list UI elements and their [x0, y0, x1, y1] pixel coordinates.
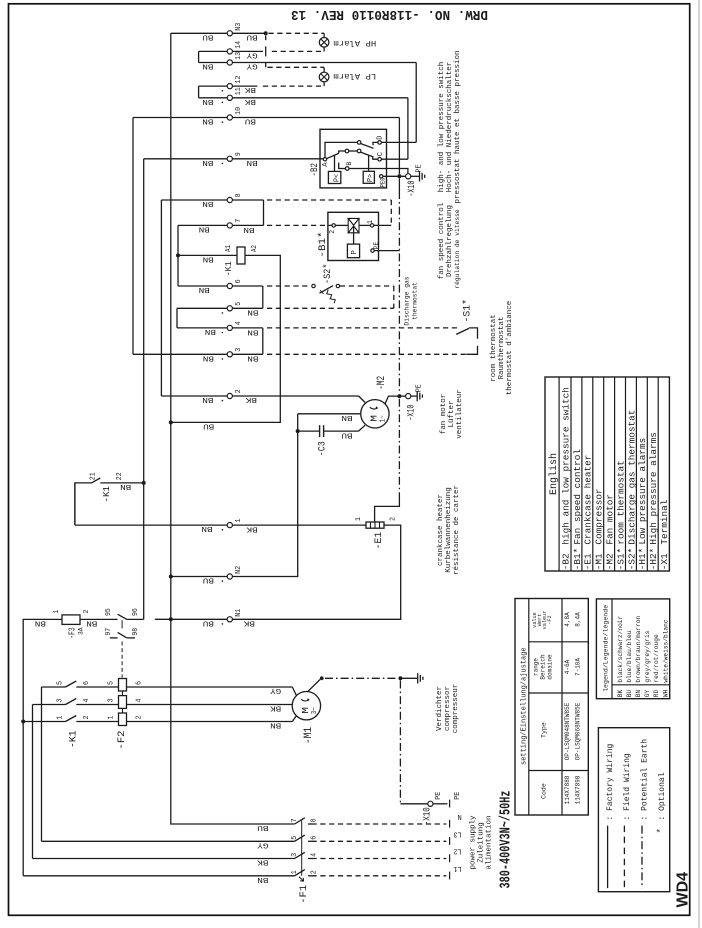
- svg-text:-M1: -M1: [594, 553, 605, 570]
- svg-text:4: 4: [235, 321, 243, 326]
- svg-text:BN: BN: [202, 158, 213, 166]
- svg-text:Verdichter: Verdichter: [436, 686, 444, 731]
- svg-text:PE: PE: [435, 792, 443, 800]
- svg-text:room thermostat: room thermostat: [490, 314, 498, 382]
- wire B2 C to corner: [381, 158, 408, 160]
- HP alarm return dashed to terminal 14: [323, 47, 325, 51]
- B1 triac symbol: [335, 224, 348, 226]
- node alarm junction on N3: [264, 31, 268, 35]
- svg-text:BK: BK: [257, 858, 269, 866]
- svg-text:Lüfter: Lüfter: [448, 400, 456, 427]
- svg-text:5: 5: [291, 836, 299, 840]
- node C3 junction: [296, 429, 300, 433]
- svg-text:BK: BK: [269, 704, 281, 712]
- svg-text:GY: GY: [246, 50, 258, 58]
- B2 terminal A: [323, 158, 326, 161]
- svg-text:3~: 3~: [311, 707, 319, 714]
- svg-text:P<: P<: [334, 174, 342, 182]
- svg-text:B: B: [346, 162, 353, 166]
- svg-text:BK: BK: [244, 85, 256, 93]
- wire BN to compressor: [292, 716, 296, 722]
- wire 13 right (GY) to B2 contact D: [232, 62, 416, 64]
- svg-text:: Potential Earth: : Potential Earth: [640, 739, 649, 821]
- connection bar at 14: [265, 46, 267, 56]
- svg-text:BU: BU: [257, 823, 268, 831]
- svg-text:97: 97: [105, 628, 113, 636]
- svg-text:A2: A2: [251, 245, 259, 252]
- svg-text:PE0: PE0: [380, 177, 387, 187]
- svg-text:4-6A: 4-6A: [564, 659, 571, 674]
- B2 B stationary hook: [339, 163, 346, 169]
- terminal X1:6: [227, 283, 232, 288]
- svg-text:résistance de carter: résistance de carter: [453, 485, 461, 575]
- wire 7 right (BN) dashed to B1 terminal 2: [232, 224, 263, 226]
- wire GY to compressor: [292, 687, 296, 696]
- terminal X1:N2: [227, 574, 232, 579]
- svg-text:12: 12: [235, 76, 243, 84]
- B2 C stationary contact: [373, 156, 378, 159]
- svg-text:Drehzahlregelung: Drehzahlregelung: [446, 205, 454, 277]
- svg-text:RD: RD: [653, 689, 660, 697]
- svg-text:1: 1: [107, 716, 115, 720]
- wire E1 to N1: [232, 525, 400, 619]
- potential earth to supply X10 (dash-dot): [399, 681, 401, 804]
- potential earth sample: [641, 826, 643, 889]
- svg-text:BN: BN: [205, 327, 216, 335]
- wire 9 left (BN) bus down to overload 96: [144, 158, 228, 160]
- svg-text:Fan speed control: Fan speed control: [572, 449, 583, 545]
- svg-text:2: 2: [136, 716, 144, 720]
- pressure switch B2 box: [320, 129, 387, 188]
- svg-text:-K1: -K1: [68, 731, 80, 749]
- wire N1 left (BU) stub through BU bus node: [155, 618, 227, 620]
- potential earth bus M2 to E1 (dash-dot): [398, 399, 400, 500]
- svg-text:7: 7: [291, 818, 299, 822]
- svg-text:21: 21: [89, 472, 97, 480]
- B2 A blade: [326, 153, 338, 158]
- node M1 PE dot: [320, 676, 324, 680]
- svg-text:2: 2: [329, 230, 337, 234]
- svg-text:Kurbelwannenheizung: Kurbelwannenheizung: [445, 487, 453, 573]
- svg-text:2: 2: [83, 610, 91, 614]
- svg-text:7: 7: [235, 219, 243, 223]
- svg-text:1: 1: [355, 517, 363, 521]
- wire B1 PE to potential earth bus: [374, 250, 399, 252]
- svg-text:Type: Type: [541, 722, 548, 738]
- svg-text:BN: BN: [202, 62, 213, 70]
- svg-text:-S1*: -S1*: [461, 299, 473, 323]
- node supply PE junction: [398, 676, 402, 680]
- svg-text:4: 4: [83, 699, 91, 703]
- wire 1 right (BK) to heater E1: [232, 524, 366, 526]
- svg-text:N: N: [458, 812, 462, 820]
- supply field wiring dashed lines: [312, 823, 447, 825]
- terminal X1:8: [227, 197, 232, 202]
- thermostat contact S1*: [456, 328, 469, 334]
- B2 terminal PE0: [380, 175, 383, 178]
- wire 12 right (BK): [232, 85, 257, 87]
- wire 5 right (BN) dashed: [232, 307, 262, 309]
- svg-text:BN: BN: [202, 199, 213, 207]
- B2 upper rail from A: [325, 142, 357, 157]
- node X10 PE junction at B2: [397, 174, 401, 178]
- wire L3 to F1: [42, 840, 295, 842]
- svg-text:BU: BU: [245, 117, 256, 125]
- svg-text:fan speed control: fan speed control: [438, 202, 446, 279]
- svg-text:GY: GY: [644, 689, 651, 697]
- wire 8 right (BN) jumper bracket to 7: [232, 199, 263, 201]
- node K1 aux on BN bus: [142, 481, 146, 485]
- svg-text:BU: BU: [202, 32, 213, 40]
- scan edge artifact line: [698, 0, 700, 928]
- svg-text:P>: P>: [367, 174, 375, 182]
- lamp H1 LP Alarm: [319, 72, 329, 82]
- jumper 12-11 left bracket: [199, 85, 228, 87]
- wire F3 to L1 bus: [23, 619, 45, 721]
- svg-text:DRW. NO. -118R0110 REV. 13: DRW. NO. -118R0110 REV. 13: [291, 6, 488, 22]
- svg-text:BN: BN: [247, 158, 258, 166]
- ground symbol at M2 X10: [416, 391, 418, 401]
- wire 11 right (BK) to B2 contact C: [232, 97, 408, 99]
- svg-text:BN: BN: [635, 689, 642, 697]
- capacitor C3: [298, 430, 320, 432]
- svg-text:English: English: [548, 453, 560, 495]
- wire 3 right (BN) dashed: [232, 353, 262, 355]
- svg-text:L2: L2: [453, 847, 461, 855]
- node BU bus / N1 junction: [169, 617, 173, 621]
- svg-text:1: 1: [367, 220, 375, 224]
- LP alarm return dashed to terminal 12: [323, 82, 325, 86]
- svg-text:8: 8: [235, 193, 243, 197]
- B1 P box: [347, 244, 359, 258]
- svg-text:BK: BK: [243, 619, 255, 627]
- lamp H2 HP Alarm: [319, 38, 329, 48]
- svg-text:M: M: [300, 707, 311, 714]
- wire B2 D to corner: [381, 141, 416, 143]
- B2 terminal B: [345, 167, 349, 171]
- svg-text:BN: BN: [270, 721, 281, 729]
- svg-text:-M1: -M1: [303, 727, 315, 744]
- contactor coil K1: [178, 254, 237, 256]
- field wire to HP alarm lamp (dashed): [269, 32, 325, 34]
- svg-text:14: 14: [235, 40, 243, 49]
- svg-text:room thermostat: room thermostat: [615, 460, 626, 544]
- B2 P> actuator link: [368, 156, 370, 172]
- wire 14 right (GY): [232, 50, 263, 52]
- wire N3 right (BU) to alarm junction: [232, 32, 265, 34]
- svg-text:PE: PE: [373, 242, 380, 250]
- svg-text:white/weiss/blanc: white/weiss/blanc: [662, 619, 669, 682]
- svg-text:-H2*: -H2*: [648, 548, 659, 571]
- BU neutral bus vertical: [170, 33, 172, 824]
- wire 6 right (BN) bracket to 5: [232, 285, 262, 287]
- svg-text:-B2: -B2: [560, 553, 571, 570]
- crankcase heater E1: [366, 522, 384, 528]
- svg-text:Bereich: Bereich: [540, 654, 547, 680]
- svg-text:11: 11: [235, 87, 243, 96]
- svg-text:-X10: -X10: [421, 807, 433, 825]
- svg-text:PE: PE: [415, 384, 423, 392]
- svg-text:3: 3: [291, 853, 299, 857]
- terminal X10 PE at supply: [400, 803, 427, 805]
- svg-text:3: 3: [235, 348, 243, 352]
- svg-text:C: C: [377, 152, 385, 156]
- B1 gate link to P box: [353, 226, 355, 244]
- svg-text:-S1*: -S1*: [615, 548, 626, 571]
- svg-text:WD4: WD4: [675, 872, 692, 908]
- svg-text:: Optional: : Optional: [658, 772, 667, 820]
- B2 pivot contact upper: [357, 141, 361, 145]
- svg-text:BU: BU: [203, 576, 214, 584]
- wire 10 left (BN) bus down to 3: [133, 117, 227, 119]
- M1 PE dash-dot to earth node: [325, 677, 397, 679]
- overload relay F2 heaters: [119, 679, 127, 692]
- svg-text:-F1: -F1: [298, 885, 310, 904]
- svg-text:-S2*: -S2*: [626, 548, 637, 571]
- jumper 14-13 left bracket: [199, 50, 228, 52]
- svg-text:GY: GY: [269, 686, 281, 694]
- svg-text:BU: BU: [203, 422, 214, 430]
- svg-text:-F3: -F3: [67, 627, 78, 639]
- factory wiring sample: [607, 826, 609, 889]
- svg-text:BN: BN: [243, 225, 254, 233]
- field wiring sample: [623, 826, 625, 889]
- svg-text:legend/Legende/légende: legend/Legende/légende: [602, 605, 609, 692]
- svg-text:BN: BN: [120, 482, 131, 490]
- svg-text:9: 9: [235, 152, 243, 156]
- terminal X1:14: [227, 49, 232, 54]
- svg-text:BK: BK: [617, 689, 624, 697]
- svg-text:-E1: -E1: [583, 553, 594, 570]
- svg-text:BN: BN: [202, 97, 213, 105]
- svg-text:L1: L1: [453, 864, 461, 872]
- svg-text:8,4A: 8,4A: [575, 612, 582, 627]
- svg-text:-M2: -M2: [605, 553, 616, 570]
- svg-text:BN: BN: [247, 354, 258, 362]
- wire B2 B to X10 PE terminal: [349, 169, 408, 174]
- svg-text:alimentation: alimentation: [486, 815, 494, 869]
- svg-text:8: 8: [311, 818, 319, 822]
- svg-text:A1: A1: [225, 245, 233, 252]
- svg-text:6: 6: [235, 279, 243, 283]
- svg-text:pressostat haute et basse pres: pressostat haute et basse pression: [454, 50, 462, 203]
- wire L2 to F1: [33, 858, 295, 860]
- svg-text:Fan motor: Fan motor: [605, 494, 616, 545]
- terminal X1:2: [227, 393, 232, 398]
- svg-text:power supply: power supply: [470, 815, 478, 870]
- svg-text:7-10A: 7-10A: [575, 658, 582, 676]
- svg-text:*: *: [656, 828, 666, 833]
- svg-text:P: P: [351, 250, 359, 255]
- wire 10 right (BU) down to X10 PE node: [232, 117, 399, 119]
- svg-text:ventilateur: ventilateur: [456, 389, 464, 439]
- B2 middle blade: [361, 152, 374, 157]
- node L1 bus junction: [21, 720, 25, 724]
- svg-text:BN: BN: [247, 327, 258, 335]
- svg-text:-F2: -F2: [547, 615, 553, 624]
- node BU bus / N2 junction: [169, 575, 173, 579]
- svg-text:BU: BU: [247, 32, 258, 40]
- overload trip link: [121, 620, 123, 628]
- potential earth bus B2 to M2 (dash-dot): [398, 178, 400, 191]
- svg-text:fan motor: fan motor: [440, 394, 448, 435]
- svg-text:2: 2: [83, 716, 91, 720]
- svg-text:thermostat d'ambiance: thermostat d'ambiance: [506, 301, 514, 396]
- svg-text:5: 5: [235, 302, 243, 306]
- svg-text:BK: BK: [244, 97, 256, 105]
- svg-text:2: 2: [235, 389, 243, 393]
- svg-text:1: 1: [291, 870, 299, 874]
- ground symbol at M1 PE: [417, 673, 419, 683]
- svg-text:114X7898: 114X7898: [575, 775, 582, 804]
- svg-text:BN: BN: [199, 225, 210, 233]
- wire BN bus corner to overload contact 96: [127, 618, 144, 620]
- wire L1 to F1: [23, 875, 294, 877]
- svg-text:2: 2: [311, 870, 319, 874]
- svg-text:3A: 3A: [77, 627, 85, 635]
- terminal X1:4: [227, 325, 232, 330]
- node X10 PE junction at M2: [397, 394, 401, 398]
- svg-text:GY: GY: [246, 62, 258, 70]
- svg-text:PE: PE: [415, 165, 423, 173]
- svg-text:compresseur: compresseur: [452, 684, 460, 734]
- svg-text:LP Alarm: LP Alarm: [333, 71, 376, 81]
- svg-text:N1: N1: [235, 608, 243, 617]
- svg-text:Discharge gas: Discharge gas: [404, 276, 411, 325]
- wire S2 dashed loop to 5: [340, 285, 394, 287]
- compressor motor M1: [292, 692, 320, 720]
- svg-text:-H1*: -H1*: [637, 548, 648, 571]
- svg-text:95: 95: [105, 608, 113, 616]
- terminal X1:11: [227, 95, 232, 100]
- svg-text:-B2: -B2: [310, 163, 321, 177]
- svg-text:brown/braun/marron: brown/braun/marron: [635, 615, 642, 682]
- svg-text:high and low pressure switch: high and low pressure switch: [560, 387, 571, 545]
- wire K1 A2 to BU bus: [171, 255, 280, 422]
- B2 middle rail: [339, 151, 346, 153]
- svg-text:5: 5: [107, 681, 115, 685]
- svg-text:96: 96: [132, 608, 140, 616]
- B2 terminal C: [378, 157, 382, 161]
- fan motor M2: [361, 400, 389, 428]
- wire 2 right (BK) to fan motor M2: [232, 395, 358, 397]
- B2 upper blade: [361, 144, 374, 149]
- svg-text:OP-LSQM048NTW85E: OP-LSQM048NTW85E: [564, 702, 571, 760]
- svg-text:BN: BN: [203, 353, 214, 361]
- svg-text:1: 1: [235, 518, 243, 523]
- wire N to F1: [171, 823, 295, 825]
- ground symbol at B2 X10: [419, 171, 421, 181]
- svg-text:4: 4: [136, 699, 144, 703]
- B2 P< actuator link: [334, 155, 336, 171]
- B2 pivot contact middle-left: [345, 149, 349, 153]
- svg-text:-X10: -X10: [406, 181, 418, 197]
- svg-text:4: 4: [311, 853, 319, 857]
- svg-text:Low pressure alarms: Low pressure alarms: [637, 438, 648, 545]
- svg-text:GY: GY: [257, 841, 269, 849]
- svg-text:-S2*: -S2*: [322, 264, 334, 285]
- wire 4 right (BN) bracket to 3: [232, 327, 262, 329]
- phase bus L2 riser: [32, 705, 34, 859]
- svg-text:grey/grey/gris: grey/grey/gris: [644, 630, 651, 682]
- svg-text:régulation de vitesse: régulation de vitesse: [454, 209, 461, 289]
- svg-text:blue/blau/bleu: blue/blau/bleu: [626, 630, 633, 682]
- svg-text:-M2: -M2: [376, 376, 388, 390]
- svg-text:Raumthermostat: Raumthermostat: [498, 316, 506, 379]
- contactor K1 main contacts: [42, 686, 66, 688]
- svg-text:Code: Code: [541, 783, 548, 799]
- terminal X1:10: [227, 115, 232, 120]
- B2 P> bellows box: [363, 171, 374, 183]
- fan speed control B1 box: [328, 212, 379, 260]
- svg-text:thermostat: thermostat: [412, 282, 419, 320]
- node BU bus / A2 wire junction: [169, 420, 173, 424]
- wire M2 to X10 PE: [385, 396, 399, 404]
- svg-text:: Factory Wiring: : Factory Wiring: [606, 743, 615, 820]
- svg-text:Terminal: Terminal: [659, 499, 670, 544]
- phase bus L1 riser: [22, 722, 24, 876]
- svg-text:domaine: domaine: [547, 654, 554, 680]
- wire 1 left (BN) to K1 aux contact loop: [75, 524, 227, 526]
- wire B1 terminal 1 to dashed drop: [374, 224, 392, 226]
- terminal X1:N3: [227, 31, 232, 36]
- contactor K1 auxiliary contact 21-22: [75, 483, 92, 525]
- svg-text:BU: BU: [203, 618, 214, 626]
- svg-text:-K1: -K1: [224, 261, 234, 276]
- B1 terminal 1: [370, 224, 373, 227]
- svg-text:BN: BN: [202, 395, 213, 403]
- LP alarm feed tap on wire 13 (dashed): [265, 63, 267, 68]
- svg-text:BN: BN: [201, 524, 212, 532]
- wire 8 left (BN) bus down to 2: [161, 199, 227, 201]
- svg-text:L3: L3: [453, 829, 461, 837]
- wire N2 left (BU) to BU bus: [171, 576, 227, 578]
- svg-text:High pressure alarms: High pressure alarms: [648, 432, 659, 545]
- terminal X1:3: [227, 352, 232, 357]
- svg-text:BN: BN: [341, 413, 352, 421]
- svg-text:BK: BK: [245, 395, 257, 403]
- terminal X10 PE at B2: [406, 174, 411, 179]
- B2 D stationary contact: [373, 142, 378, 145]
- svg-text:1~: 1~: [379, 415, 387, 422]
- overload mechanical link dashed to F2: [121, 642, 123, 678]
- svg-text:Hoch- und Niederdruckschalter: Hoch- und Niederdruckschalter: [446, 62, 454, 193]
- terminal X1:12: [227, 84, 232, 89]
- main switch F1: [295, 818, 305, 824]
- terminal X1:N1: [227, 617, 232, 622]
- svg-text:6: 6: [136, 681, 144, 685]
- svg-text:BN: BN: [247, 308, 258, 316]
- svg-text:1: 1: [56, 716, 64, 720]
- svg-text:114X7888: 114X7888: [564, 775, 571, 804]
- svg-text:BU: BU: [341, 430, 352, 438]
- svg-text:red/rot/rouge: red/rot/rouge: [653, 634, 660, 683]
- B2 P< bellows box: [328, 171, 340, 183]
- terminal X1:13: [227, 60, 232, 65]
- jumper 5-4 left bracket: [177, 307, 227, 309]
- svg-text:380-400V3N~/50Hz: 380-400V3N~/50Hz: [498, 791, 515, 889]
- thermostat contact S2*: [312, 284, 315, 287]
- svg-text:crankcase heater: crankcase heater: [437, 494, 445, 566]
- wiring legend box: [598, 728, 669, 892]
- svg-text:setting/Einstellung/ajustage: setting/Einstellung/ajustage: [521, 647, 529, 765]
- svg-text:13: 13: [235, 52, 243, 60]
- colour legend table: [596, 599, 669, 699]
- terminal X1:7: [227, 223, 232, 228]
- svg-text:BK: BK: [246, 524, 258, 532]
- wire 4 dashed to S1: [267, 327, 459, 329]
- B1 terminal 2: [332, 224, 335, 227]
